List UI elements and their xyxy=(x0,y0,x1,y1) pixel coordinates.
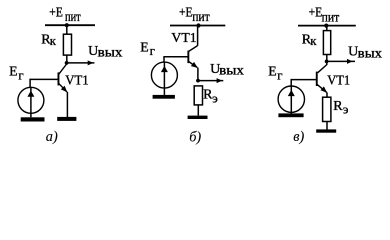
wire: node down to collector diag (в) xyxy=(326,61,328,65)
wire: base lead (б) xyxy=(164,56,188,58)
junction on rail (б) xyxy=(196,23,200,27)
svg-text:б): б) xyxy=(189,130,201,146)
source Eг (в) arrow xyxy=(288,90,295,96)
svg-text:VT1: VT1 xyxy=(65,73,88,88)
svg-text:+E: +E xyxy=(49,6,63,21)
svg-text:э: э xyxy=(343,103,349,117)
svg-text:пит: пит xyxy=(192,9,210,24)
svg-text:пит: пит xyxy=(65,9,81,24)
ground under emitter (а) xyxy=(57,117,76,121)
svg-text:г: г xyxy=(150,44,155,58)
transistor VT1 (б) emitter arrowhead xyxy=(191,62,198,68)
wire: power rail +Eпит (б) xyxy=(170,25,225,27)
source Eг (а) arrow xyxy=(27,91,34,97)
resistor Rэ (б) xyxy=(194,86,202,105)
wire: emitter to output node (б) xyxy=(197,68,199,81)
svg-text:а): а) xyxy=(46,129,58,145)
wire: Rэ to ground (б) xyxy=(197,105,199,116)
svg-text:+E: +E xyxy=(179,6,193,21)
wire: power rail +Eпит (а) xyxy=(45,24,95,26)
resistor Rэ (в) xyxy=(323,97,331,121)
wire through source Eг (а) xyxy=(30,87,32,117)
ground under source Eг (б) xyxy=(153,95,175,99)
node: collector output junction (в) xyxy=(325,60,329,64)
wire: base lead down to source (а) xyxy=(29,79,31,88)
transistor VT1 (а) base bar xyxy=(58,72,60,85)
ground under Rэ (в) xyxy=(316,129,336,132)
svg-text:к: к xyxy=(50,34,57,48)
svg-text:вых: вых xyxy=(358,45,383,60)
output arrowhead (а) xyxy=(88,60,94,65)
resistor Rк (а) xyxy=(63,34,71,55)
svg-text:к: к xyxy=(310,34,317,48)
svg-text:в): в) xyxy=(293,129,304,145)
wire: rail to collector (б) xyxy=(197,26,199,46)
wire: base lead (в) xyxy=(291,79,316,81)
wire: output lead (а) xyxy=(67,62,95,64)
svg-text:г: г xyxy=(277,69,282,83)
resistor Rк (в) xyxy=(323,31,330,55)
wire through source Eг (в) xyxy=(290,86,292,113)
node: emitter output junction (б) xyxy=(196,79,200,83)
svg-text:VT1: VT1 xyxy=(171,31,196,46)
svg-text:вых: вых xyxy=(98,45,123,60)
wire: Rк to collector node (а) xyxy=(66,55,68,63)
svg-text:E: E xyxy=(268,64,276,79)
svg-text:г: г xyxy=(18,69,23,83)
svg-text:э: э xyxy=(212,91,218,105)
wire: output lead (б) xyxy=(198,80,223,82)
source Eг (в) circle xyxy=(278,86,304,112)
wire: Rк to collector node (в) xyxy=(326,55,328,62)
wire: output lead (в) xyxy=(327,60,355,62)
svg-text:E: E xyxy=(9,64,17,79)
transistor VT1 (в) emitter arrowhead xyxy=(321,86,328,92)
source Eг (б) arrow xyxy=(161,66,168,72)
svg-text:+E: +E xyxy=(309,6,323,21)
wire: Rэ to ground (в) xyxy=(326,122,328,130)
wire: rail to Rк (в) xyxy=(326,26,328,31)
wire: base lead down to source (в) xyxy=(290,79,292,86)
svg-text:R: R xyxy=(333,99,343,114)
wire: power rail +Eпит (в) xyxy=(298,25,356,27)
transistor VT1 (в) base bar xyxy=(316,72,318,86)
junction on rail (в) xyxy=(324,24,328,28)
ground under source Eг (а) xyxy=(21,117,45,121)
wire: emitter to ground (а) xyxy=(66,92,68,117)
transistor VT1 (а) collector lead xyxy=(59,64,67,74)
transistor VT1 (в) collector lead xyxy=(318,65,327,73)
transistor VT1 (б) emitter lead xyxy=(189,62,198,68)
transistor VT1 (а) emitter arrowhead xyxy=(61,86,68,93)
wire: base lead (а) xyxy=(30,78,58,80)
transistor VT1 (а) emitter lead xyxy=(59,83,67,92)
ground under source Eг (в) xyxy=(278,113,303,117)
svg-text:VT1: VT1 xyxy=(327,74,350,89)
svg-text:пит: пит xyxy=(322,9,340,24)
transistor VT1 (в) emitter lead xyxy=(317,84,327,92)
ground under Rэ (б) xyxy=(188,116,208,119)
wire: base lead down to source (б) xyxy=(163,56,165,62)
transistor VT1 (б) collector lead xyxy=(189,46,198,52)
output arrowhead (б) xyxy=(217,78,223,83)
transistor VT1 (б) base bar xyxy=(187,51,189,64)
wire: rail to Rк (а) xyxy=(66,25,68,34)
junction on rail (а) xyxy=(65,23,69,27)
source Eг (б) circle xyxy=(151,62,177,88)
wire: emitter to Rэ (в) xyxy=(326,92,328,97)
svg-text:E: E xyxy=(140,39,148,54)
node: collector output junction (а) xyxy=(65,61,69,65)
wire through source Eг (б) xyxy=(163,62,165,95)
source Eг (а) circle xyxy=(18,87,44,113)
output arrowhead (в) xyxy=(347,59,353,64)
svg-text:вых: вых xyxy=(219,63,244,78)
